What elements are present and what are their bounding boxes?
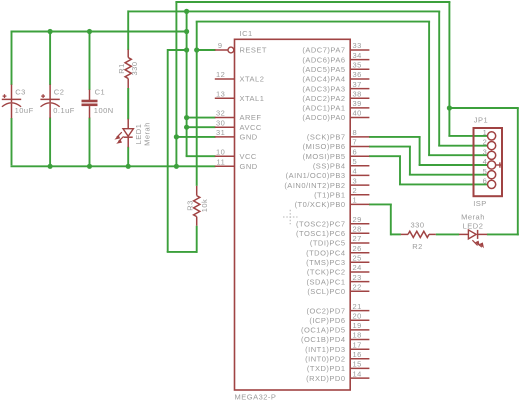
svg-text:30: 30 bbox=[216, 118, 225, 127]
svg-text:RESET: RESET bbox=[240, 46, 268, 55]
wire MOSI from pin6 bbox=[369, 155, 401, 157]
svg-text:25: 25 bbox=[353, 254, 362, 263]
svg-text:22: 22 bbox=[353, 282, 362, 291]
pin 11 GND bbox=[215, 158, 258, 172]
svg-text:(OC1A)PD5: (OC1A)PD5 bbox=[301, 326, 346, 335]
svg-text:20: 20 bbox=[353, 311, 362, 320]
wire LED1 bottom drop bbox=[127, 147, 129, 167]
svg-text:(MISO)PB6: (MISO)PB6 bbox=[303, 142, 346, 151]
junction VCC y11 bbox=[184, 9, 189, 14]
wire R1 top drop bbox=[127, 10, 129, 50]
svg-text:16: 16 bbox=[353, 350, 362, 359]
svg-text:18: 18 bbox=[353, 331, 362, 340]
svg-text:(SDA)PC1: (SDA)PC1 bbox=[306, 277, 345, 286]
pin 2 (T1)PB1 bbox=[314, 186, 369, 200]
pin 34 (ADC6)PA6 bbox=[302, 51, 369, 65]
pin 36 (ADC4)PA4 bbox=[302, 70, 369, 84]
wire PB0 drop bbox=[390, 204, 392, 235]
wire C3 top lead drop bbox=[11, 31, 13, 86]
wire RESET right drop to JP1-3 bbox=[428, 22, 430, 156]
wire VCC top rail bbox=[11, 31, 188, 33]
label MEGA32-P bbox=[235, 393, 277, 402]
svg-text:Merah: Merah bbox=[142, 122, 151, 146]
pin 28 (TOSC1)PC6 bbox=[296, 225, 369, 239]
svg-text:6: 6 bbox=[483, 177, 488, 186]
svg-text:(ADC4)PA4: (ADC4)PA4 bbox=[302, 75, 345, 84]
wire PB0 to R2 bbox=[391, 233, 401, 235]
svg-text:(OC1B)PD4: (OC1B)PD4 bbox=[301, 335, 346, 344]
svg-text:(MOSI)PB5: (MOSI)PB5 bbox=[303, 152, 346, 161]
svg-text:32: 32 bbox=[216, 109, 225, 118]
origin cross IC1 bbox=[283, 210, 298, 225]
svg-text:14: 14 bbox=[353, 369, 362, 378]
svg-text:(TOSC1)PC6: (TOSC1)PC6 bbox=[296, 229, 345, 238]
svg-text:21: 21 bbox=[353, 302, 362, 311]
label IC1 bbox=[240, 29, 253, 38]
svg-text:(TCK)PC2: (TCK)PC2 bbox=[307, 268, 346, 277]
wire C1 top lead drop bbox=[89, 32, 91, 91]
svg-text:IC1: IC1 bbox=[240, 29, 253, 38]
svg-text:(T0/XCK)PB0: (T0/XCK)PB0 bbox=[295, 200, 346, 209]
junction C2 bottom bbox=[48, 164, 53, 169]
svg-text:38: 38 bbox=[353, 89, 362, 98]
pin 27 (TDI)PC5 bbox=[310, 234, 370, 248]
wire LED2 right entry bbox=[487, 233, 519, 235]
svg-text:1: 1 bbox=[483, 128, 488, 137]
wire SCK from pin8 bbox=[369, 136, 421, 138]
svg-text:330: 330 bbox=[130, 61, 139, 75]
wire R3 bottom horizontal bbox=[167, 251, 197, 253]
svg-text:39: 39 bbox=[353, 99, 362, 108]
svg-text:9: 9 bbox=[218, 41, 223, 50]
wire JP1 pin2 entry bbox=[438, 145, 488, 147]
capacitor C3 10uF bbox=[2, 85, 34, 119]
junction GND LED2 branch bbox=[447, 105, 452, 110]
junction AVCC bbox=[184, 125, 189, 130]
svg-text:(ADC5)PA5: (ADC5)PA5 bbox=[302, 65, 345, 74]
svg-text:(T1)PB1: (T1)PB1 bbox=[314, 191, 345, 200]
junction VCC rail end bbox=[184, 29, 189, 34]
svg-text:15: 15 bbox=[353, 360, 362, 369]
svg-text:29: 29 bbox=[353, 215, 362, 224]
svg-text:ISP: ISP bbox=[473, 199, 487, 208]
svg-text:3: 3 bbox=[353, 176, 358, 185]
svg-text:(TOSC2)PC7: (TOSC2)PC7 bbox=[296, 219, 345, 228]
wire VCC drop x167 bbox=[167, 49, 169, 252]
wire JP1 pin3 entry bbox=[428, 154, 488, 156]
svg-text:C1: C1 bbox=[95, 87, 106, 96]
svg-text:R2: R2 bbox=[412, 242, 423, 251]
svg-text:GND: GND bbox=[240, 133, 258, 142]
pin 3 (AIN0/INT2)PB2 bbox=[284, 176, 369, 190]
svg-text:(INT1)PD3: (INT1)PD3 bbox=[305, 345, 345, 354]
svg-text:(ADC1)PA1: (ADC1)PA1 bbox=[302, 104, 345, 113]
connector JP1 ISP bbox=[473, 116, 503, 208]
svg-text:24: 24 bbox=[353, 263, 362, 272]
resistor R3 10k bbox=[185, 186, 209, 226]
pin 1 (T0/XCK)PB0 bbox=[295, 196, 370, 210]
svg-text:6: 6 bbox=[353, 147, 358, 156]
svg-text:(OC2)PD7: (OC2)PD7 bbox=[306, 306, 345, 315]
svg-text:10uF: 10uF bbox=[15, 106, 34, 115]
svg-text:(AIN0/INT2)PB2: (AIN0/INT2)PB2 bbox=[284, 181, 345, 190]
pin 26 (TDO)PC4 bbox=[306, 244, 369, 258]
pin 23 (SDA)PC1 bbox=[306, 273, 369, 287]
svg-text:(ADC2)PA2: (ADC2)PA2 bbox=[302, 94, 345, 103]
svg-text:31: 31 bbox=[216, 128, 225, 137]
svg-text:VCC: VCC bbox=[240, 152, 257, 161]
svg-text:0.1uF: 0.1uF bbox=[53, 106, 75, 115]
pin 12 XTAL2 bbox=[215, 70, 265, 84]
svg-text:10: 10 bbox=[216, 147, 225, 156]
svg-text:11: 11 bbox=[217, 158, 226, 167]
wire JP1 pin6 entry bbox=[399, 183, 488, 185]
junction LED1 bottom bbox=[126, 164, 131, 169]
svg-text:(SCK)PB7: (SCK)PB7 bbox=[307, 133, 346, 142]
svg-text:40: 40 bbox=[353, 109, 362, 118]
LED LED1 Merah bbox=[114, 119, 151, 148]
pin 16 (INT0)PD2 bbox=[305, 350, 369, 364]
wire RESET vertical x196 bbox=[196, 22, 198, 186]
svg-text:(INT0)PD2: (INT0)PD2 bbox=[305, 355, 345, 364]
svg-text:(ADC3)PA3: (ADC3)PA3 bbox=[302, 84, 345, 93]
pin 39 (ADC1)PA1 bbox=[302, 99, 369, 113]
svg-text:5: 5 bbox=[353, 157, 358, 166]
svg-text:8: 8 bbox=[353, 128, 358, 137]
svg-text:33: 33 bbox=[353, 41, 362, 50]
svg-text:(AIN1/OC0)PB3: (AIN1/OC0)PB3 bbox=[286, 171, 346, 180]
svg-text:28: 28 bbox=[353, 225, 362, 234]
svg-text:4: 4 bbox=[353, 167, 358, 176]
junction VCC reset-row bbox=[184, 47, 189, 52]
wire C1 bottom drop bbox=[89, 118, 91, 167]
wire GND pin31 row bbox=[176, 136, 215, 138]
wire AREF row bbox=[186, 117, 216, 119]
svg-text:2: 2 bbox=[353, 186, 358, 195]
svg-text:XTAL1: XTAL1 bbox=[240, 94, 265, 103]
wire MISO drop bbox=[409, 147, 411, 175]
wire VCC right drop to JP1-2 bbox=[438, 11, 440, 145]
junction RESET pin9 bbox=[194, 47, 199, 52]
svg-text:(SS)PB4: (SS)PB4 bbox=[313, 162, 346, 171]
svg-text:GND: GND bbox=[240, 162, 258, 171]
wire AVCC row bbox=[186, 126, 216, 128]
pin 18 (OC1B)PD4 bbox=[301, 331, 369, 345]
svg-text:(ICP)PD6: (ICP)PD6 bbox=[309, 316, 345, 325]
svg-text:19: 19 bbox=[353, 321, 362, 330]
pin 32 AREF bbox=[215, 109, 262, 123]
wire PB0 from pin1 bbox=[369, 203, 392, 205]
pin 33 (ADC7)PA7 bbox=[302, 41, 369, 55]
junction C1 top bbox=[87, 29, 92, 34]
svg-text:C3: C3 bbox=[15, 87, 26, 96]
wire GND right drop to JP1-1 bbox=[448, 2, 450, 136]
junction AREF bbox=[184, 115, 189, 120]
svg-text:MEGA32-P: MEGA32-P bbox=[235, 393, 277, 402]
svg-text:AVCC: AVCC bbox=[240, 123, 262, 132]
pin 24 (TCK)PC2 bbox=[307, 263, 369, 277]
capacitor C1 100N bbox=[82, 87, 114, 118]
pin 29 (TOSC2)PC7 bbox=[296, 215, 369, 229]
pin 15 (TXD)PD1 bbox=[307, 360, 369, 374]
svg-text:(ADC6)PA6: (ADC6)PA6 bbox=[302, 55, 345, 64]
pin 13 XTAL1 bbox=[215, 89, 265, 103]
pin 25 (TMS)PC3 bbox=[306, 254, 369, 268]
svg-text:R3: R3 bbox=[185, 200, 194, 211]
pin 17 (INT1)PD3 bbox=[305, 340, 369, 354]
svg-text:5: 5 bbox=[483, 167, 488, 176]
svg-text:36: 36 bbox=[353, 70, 362, 79]
svg-text:Merah: Merah bbox=[461, 213, 485, 222]
junction C2 top bbox=[48, 29, 53, 34]
wire GND vertical x176 bbox=[175, 2, 177, 166]
wire GND to LED2 top bbox=[449, 107, 518, 109]
pin 14 (RXD)PD0 bbox=[306, 369, 369, 383]
svg-text:10k: 10k bbox=[200, 199, 209, 213]
svg-text:XTAL2: XTAL2 bbox=[240, 75, 265, 84]
wire RESET pin9 row bbox=[197, 49, 216, 51]
junction GND pin11 bbox=[174, 164, 179, 169]
pin 10 VCC bbox=[215, 147, 257, 161]
wire JP1 pin4 entry bbox=[419, 164, 488, 166]
wire C2 bottom drop bbox=[49, 118, 51, 167]
wire R2 to LED2 bbox=[436, 233, 459, 235]
svg-text:100N: 100N bbox=[94, 106, 114, 115]
pin 9 RESET bbox=[215, 41, 267, 55]
wire VCC stub on reset row bbox=[168, 49, 188, 51]
svg-text:R1: R1 bbox=[117, 63, 126, 74]
svg-text:4: 4 bbox=[483, 157, 488, 166]
wire VCC vertical x186 bbox=[186, 11, 188, 156]
svg-text:(TMS)PC3: (TMS)PC3 bbox=[306, 258, 345, 267]
svg-text:35: 35 bbox=[353, 61, 362, 70]
pin 5 (SS)PB4 bbox=[313, 157, 370, 171]
svg-text:(SCL)PC0: (SCL)PC0 bbox=[307, 287, 345, 296]
wire VCC upper horizontal y11 bbox=[128, 10, 440, 12]
wire VCC to pin10 bbox=[186, 155, 216, 157]
svg-text:C2: C2 bbox=[54, 87, 65, 96]
pin 30 AVCC bbox=[215, 118, 262, 131]
wire LED2 right riser bbox=[517, 108, 519, 235]
wire JP1 pin5 entry bbox=[409, 174, 488, 176]
LED LED2 Merah bbox=[459, 213, 487, 249]
pin 4 (AIN1/OC0)PB3 bbox=[286, 167, 370, 181]
svg-text:(TDI)PC5: (TDI)PC5 bbox=[310, 239, 346, 248]
svg-text:3: 3 bbox=[483, 147, 488, 156]
svg-text:2: 2 bbox=[483, 138, 488, 147]
svg-text:JP1: JP1 bbox=[474, 116, 488, 125]
pin 31 GND bbox=[215, 128, 258, 142]
svg-text:AREF: AREF bbox=[240, 113, 262, 122]
pin 19 (OC1A)PD5 bbox=[301, 321, 369, 335]
svg-text:(ADC7)PA7: (ADC7)PA7 bbox=[302, 46, 345, 55]
pin 35 (ADC5)PA5 bbox=[302, 61, 369, 75]
pin 22 (SCL)PC0 bbox=[307, 282, 369, 296]
wire JP1 pin1 entry bbox=[448, 135, 488, 137]
pin 7 (MISO)PB6 bbox=[303, 138, 370, 152]
pin 37 (ADC3)PA3 bbox=[302, 80, 369, 94]
svg-text:13: 13 bbox=[216, 89, 225, 98]
junction GND pin31 bbox=[174, 134, 179, 139]
wire GND bottom rail bbox=[11, 165, 216, 167]
wire RESET top horizontal y21 bbox=[196, 21, 430, 23]
svg-text:12: 12 bbox=[216, 70, 225, 79]
pin 8 (SCK)PB7 bbox=[307, 128, 369, 142]
wire MISO from pin7 bbox=[369, 146, 411, 148]
junction C1 bottom bbox=[87, 164, 92, 169]
pin 6 (MOSI)PB5 bbox=[303, 147, 370, 161]
svg-text:23: 23 bbox=[353, 273, 362, 282]
wire GND top horizontal y2 bbox=[175, 1, 450, 3]
pin 40 (ADC0)PA0 bbox=[302, 109, 369, 123]
wire C3 bottom drop bbox=[11, 118, 13, 165]
svg-text:(TXD)PD1: (TXD)PD1 bbox=[307, 364, 346, 373]
IC IC1 MEGA32-P box bbox=[235, 39, 351, 390]
resistor R1 330 bbox=[117, 50, 139, 120]
wire C2 top lead drop bbox=[49, 32, 51, 86]
capacitor C2 0.1uF bbox=[40, 85, 74, 119]
wire SCK drop bbox=[419, 137, 421, 165]
wire R3 bottom lead riser bbox=[196, 226, 198, 253]
svg-text:1: 1 bbox=[353, 196, 358, 205]
svg-text:(RXD)PD0: (RXD)PD0 bbox=[306, 374, 345, 383]
pin 21 (OC2)PD7 bbox=[306, 302, 369, 316]
svg-text:(ADC0)PA0: (ADC0)PA0 bbox=[302, 113, 345, 122]
svg-text:37: 37 bbox=[353, 80, 362, 89]
resistor R2 330 bbox=[401, 220, 436, 251]
svg-text:LED2: LED2 bbox=[463, 221, 484, 230]
pin 38 (ADC2)PA2 bbox=[302, 89, 369, 103]
pin 20 (ICP)PD6 bbox=[309, 311, 369, 325]
svg-text:17: 17 bbox=[353, 340, 362, 349]
wire MOSI drop bbox=[399, 156, 401, 184]
svg-text:34: 34 bbox=[353, 51, 362, 60]
svg-text:330: 330 bbox=[410, 220, 424, 229]
svg-text:(TDO)PC4: (TDO)PC4 bbox=[306, 248, 345, 257]
svg-text:7: 7 bbox=[353, 138, 358, 147]
svg-text:26: 26 bbox=[353, 244, 362, 253]
svg-text:27: 27 bbox=[353, 234, 362, 243]
